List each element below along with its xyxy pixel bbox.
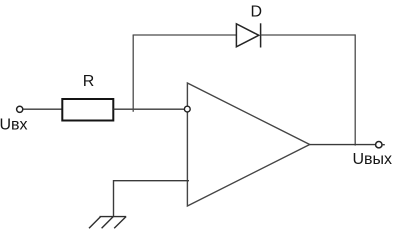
svg-text:R: R	[83, 73, 95, 90]
output terminal Uvyx	[376, 142, 382, 148]
svg-text:Uвых: Uвых	[353, 151, 393, 168]
ground	[89, 217, 126, 229]
wire output	[310, 144, 376, 146]
wire resistor to op-amp input	[113, 108, 185, 110]
svg-text:Uвх: Uвх	[0, 116, 28, 133]
wire non-inverting input	[114, 180, 190, 182]
svg-text:D: D	[251, 3, 263, 20]
input terminal Uvx	[17, 106, 23, 112]
op-amp	[187, 83, 309, 206]
wire to ground	[113, 180, 115, 217]
wire feedback left vertical	[132, 35, 134, 112]
wire feedback top right segment	[261, 34, 356, 36]
wire input to resistor	[23, 108, 62, 110]
wire feedback top left segment	[133, 34, 237, 36]
wire feedback right vertical	[354, 34, 356, 145]
node inverting input	[184, 106, 190, 112]
wire output stub	[382, 144, 385, 146]
diode D	[236, 23, 260, 47]
resistor R	[62, 99, 113, 121]
